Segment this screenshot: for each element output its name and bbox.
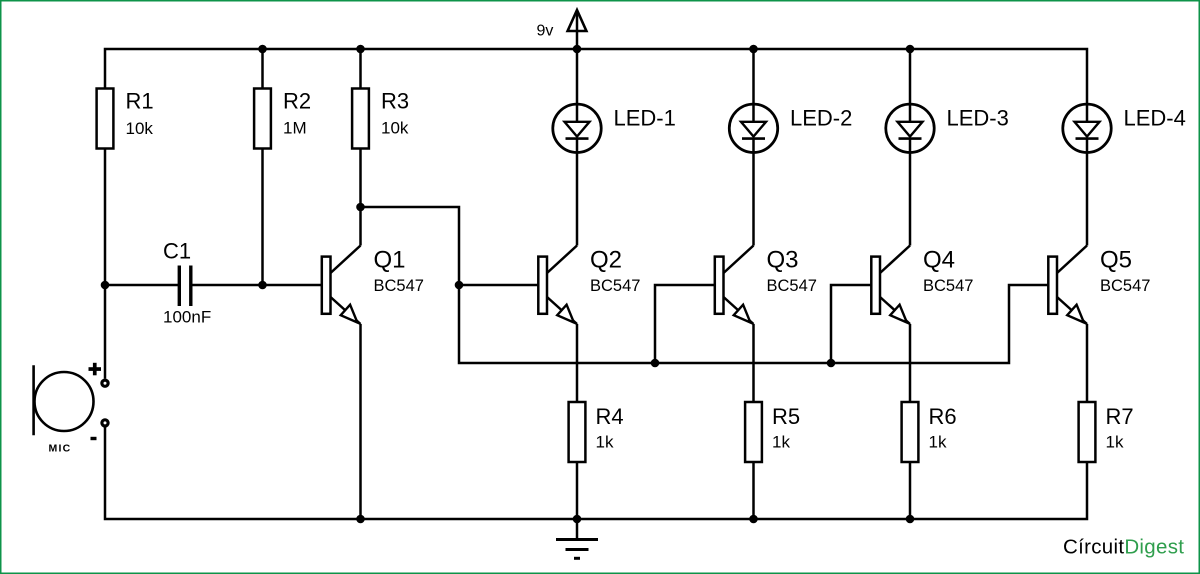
svg-text:1k: 1k	[772, 433, 790, 452]
node Q4 base bus junction	[827, 359, 836, 368]
resistor R5 body	[745, 402, 762, 462]
node MIC minus terminal	[102, 420, 108, 426]
node 9v rail junction	[573, 45, 582, 54]
transistor Q4 collector lead	[880, 246, 910, 274]
wire LED-3 feed	[909, 49, 912, 122]
transistor Q5 emitter lead	[1057, 297, 1087, 324]
LED LED-2 diode triangle	[741, 122, 766, 137]
svg-text:Q1: Q1	[374, 247, 406, 274]
wire R5 bottom stub	[752, 462, 755, 520]
wire Q2 base	[459, 284, 538, 287]
svg-text:R7: R7	[1106, 404, 1134, 429]
transistor Q3 emitter lead	[724, 297, 754, 324]
svg-text:LED-2: LED-2	[790, 106, 852, 131]
wire Q3 emitter to resistor	[752, 324, 755, 402]
resistor R2 body	[254, 89, 271, 149]
transistor Q1 emitter lead	[331, 297, 361, 324]
wire LED-2 feed	[752, 49, 755, 122]
wire R3 bottom to Q1 collector	[359, 149, 362, 246]
node R4 ground junction	[573, 515, 582, 524]
node Q2 base junction	[455, 281, 464, 290]
LED LED-2 circle	[729, 104, 777, 152]
wire R6 bottom stub	[909, 462, 912, 520]
transistor Q2 (BC547) base bar	[538, 257, 547, 314]
wire 9v stem	[576, 12, 579, 49]
svg-text:BC547: BC547	[374, 277, 424, 295]
transistor Q3 collector lead	[724, 246, 754, 274]
wire C1 left lead	[105, 284, 178, 287]
LED LED-4 cathode bar	[1076, 137, 1099, 140]
transistor Q1 collector lead	[331, 246, 361, 274]
microphone MIC body circle	[35, 372, 94, 431]
transistor Q5 collector lead	[1057, 246, 1087, 274]
label plus	[89, 363, 102, 376]
svg-text:MIC: MIC	[49, 443, 72, 455]
node LED-2 rail junction	[749, 45, 758, 54]
node R6 ground junction	[906, 515, 915, 524]
svg-text:1k: 1k	[596, 433, 614, 452]
svg-text:R1: R1	[126, 89, 154, 114]
wire Q4 emitter to resistor	[909, 324, 912, 402]
wire Q1 emitter to ground rail	[359, 324, 362, 519]
ground symbol	[556, 519, 598, 558]
svg-text:LED-3: LED-3	[947, 106, 1009, 131]
svg-text:CírcuitDigest: CírcuitDigest	[1063, 536, 1184, 559]
wire LED-1 feed	[576, 49, 579, 122]
svg-text:9v: 9v	[537, 23, 554, 40]
svg-text:10k: 10k	[381, 119, 409, 138]
transistor Q2 emitter lead	[547, 297, 577, 324]
svg-text:Q4: Q4	[923, 247, 955, 274]
resistor R7 body	[1079, 402, 1096, 462]
transistor Q1 emitter arrowhead	[341, 305, 358, 323]
transistor Q4 emitter arrowhead	[890, 305, 907, 323]
svg-text:R2: R2	[283, 89, 311, 114]
svg-text:R4: R4	[596, 404, 624, 429]
resistor R6 body	[902, 402, 919, 462]
wire R1 bottom to MIC plus terminal	[104, 149, 107, 379]
svg-text:1k: 1k	[1106, 433, 1124, 452]
resistor R4 body	[569, 402, 586, 462]
svg-text:100nF: 100nF	[163, 308, 211, 327]
node R5 ground junction	[749, 515, 758, 524]
LED LED-1 cathode bar	[566, 137, 589, 140]
node Q1 collector junction	[356, 203, 365, 212]
capacitor C1 plates	[178, 266, 181, 307]
transistor Q5 emitter arrowhead	[1067, 305, 1084, 323]
transistor Q4 emitter lead	[880, 297, 910, 324]
svg-text:BC547: BC547	[767, 277, 817, 295]
transistor Q2 collector lead	[547, 246, 577, 274]
wire Q2 emitter to resistor	[576, 324, 579, 402]
wire Q1 collector bus to Q2 base column and Q5 base	[361, 207, 1049, 363]
LED LED-1 diode triangle	[565, 122, 590, 137]
node R2 top junction	[258, 45, 267, 54]
label minus	[91, 437, 97, 440]
node LED-3 rail junction	[906, 45, 915, 54]
LED LED-4 circle	[1063, 104, 1111, 152]
wire LED-3 cathode down to collector	[909, 139, 912, 246]
transistor Q3 (BC547) base bar	[715, 257, 724, 314]
wire Q4 base riser	[831, 285, 871, 363]
svg-text:1k: 1k	[929, 433, 947, 452]
LED LED-3 diode triangle	[898, 122, 923, 137]
svg-text:1M: 1M	[283, 119, 307, 138]
svg-text:BC547: BC547	[590, 277, 640, 295]
LED LED-3 cathode bar	[899, 137, 922, 140]
transistor Q5 (BC547) base bar	[1048, 257, 1057, 314]
wire LED-4 cathode down to collector	[1086, 139, 1089, 246]
wire bottom ground rail with MIC minus drop and R7 stub	[105, 427, 1087, 519]
svg-text:C1: C1	[163, 239, 191, 264]
svg-text:R3: R3	[381, 89, 409, 114]
LED LED-3 circle	[886, 104, 934, 152]
svg-text:Q2: Q2	[590, 247, 622, 274]
wire R4 bottom stub	[576, 462, 579, 520]
LED LED-4 diode triangle	[1075, 122, 1100, 137]
wire Q3 base riser	[655, 285, 715, 363]
svg-text:R5: R5	[772, 404, 800, 429]
node R3 top junction	[356, 45, 365, 54]
svg-text:Q3: Q3	[767, 247, 799, 274]
LED LED-2 cathode bar	[742, 137, 765, 140]
node R2 bottom junction	[258, 281, 267, 290]
transistor Q2 emitter arrowhead	[557, 305, 574, 323]
wire C1 right lead to Q1 base	[192, 284, 322, 287]
svg-text:R6: R6	[929, 404, 957, 429]
svg-text:LED-1: LED-1	[614, 106, 676, 131]
microphone MIC diaphragm line	[32, 365, 35, 435]
resistor R3 body	[352, 89, 369, 149]
LED LED-1 circle	[553, 104, 601, 152]
svg-text:BC547: BC547	[1100, 277, 1150, 295]
wire LED-1 cathode down to collector	[576, 139, 579, 246]
wire top supply rail with drops to R1 and LED-4	[105, 49, 1087, 122]
svg-text:Q5: Q5	[1100, 247, 1132, 274]
svg-text:LED-4: LED-4	[1124, 106, 1186, 131]
wire R2 bottom	[261, 149, 264, 286]
wire R2 top stub	[261, 49, 264, 89]
node C1 left rail junction	[101, 281, 110, 290]
svg-text:10k: 10k	[126, 119, 154, 138]
node Q1 emitter ground junction	[356, 515, 365, 524]
power supply 9v arrow	[568, 10, 587, 31]
transistor Q1 (BC547) base bar	[322, 257, 331, 314]
transistor Q3 emitter arrowhead	[734, 305, 751, 323]
node Q3 base bus junction	[651, 359, 660, 368]
svg-text:BC547: BC547	[923, 277, 973, 295]
wire R3 top stub	[359, 49, 362, 89]
wire LED-2 cathode down to collector	[752, 139, 755, 246]
resistor R1 body	[97, 89, 114, 149]
transistor Q4 (BC547) base bar	[871, 257, 880, 314]
node MIC plus terminal	[102, 380, 108, 386]
wire Q5 emitter to resistor	[1086, 324, 1089, 402]
